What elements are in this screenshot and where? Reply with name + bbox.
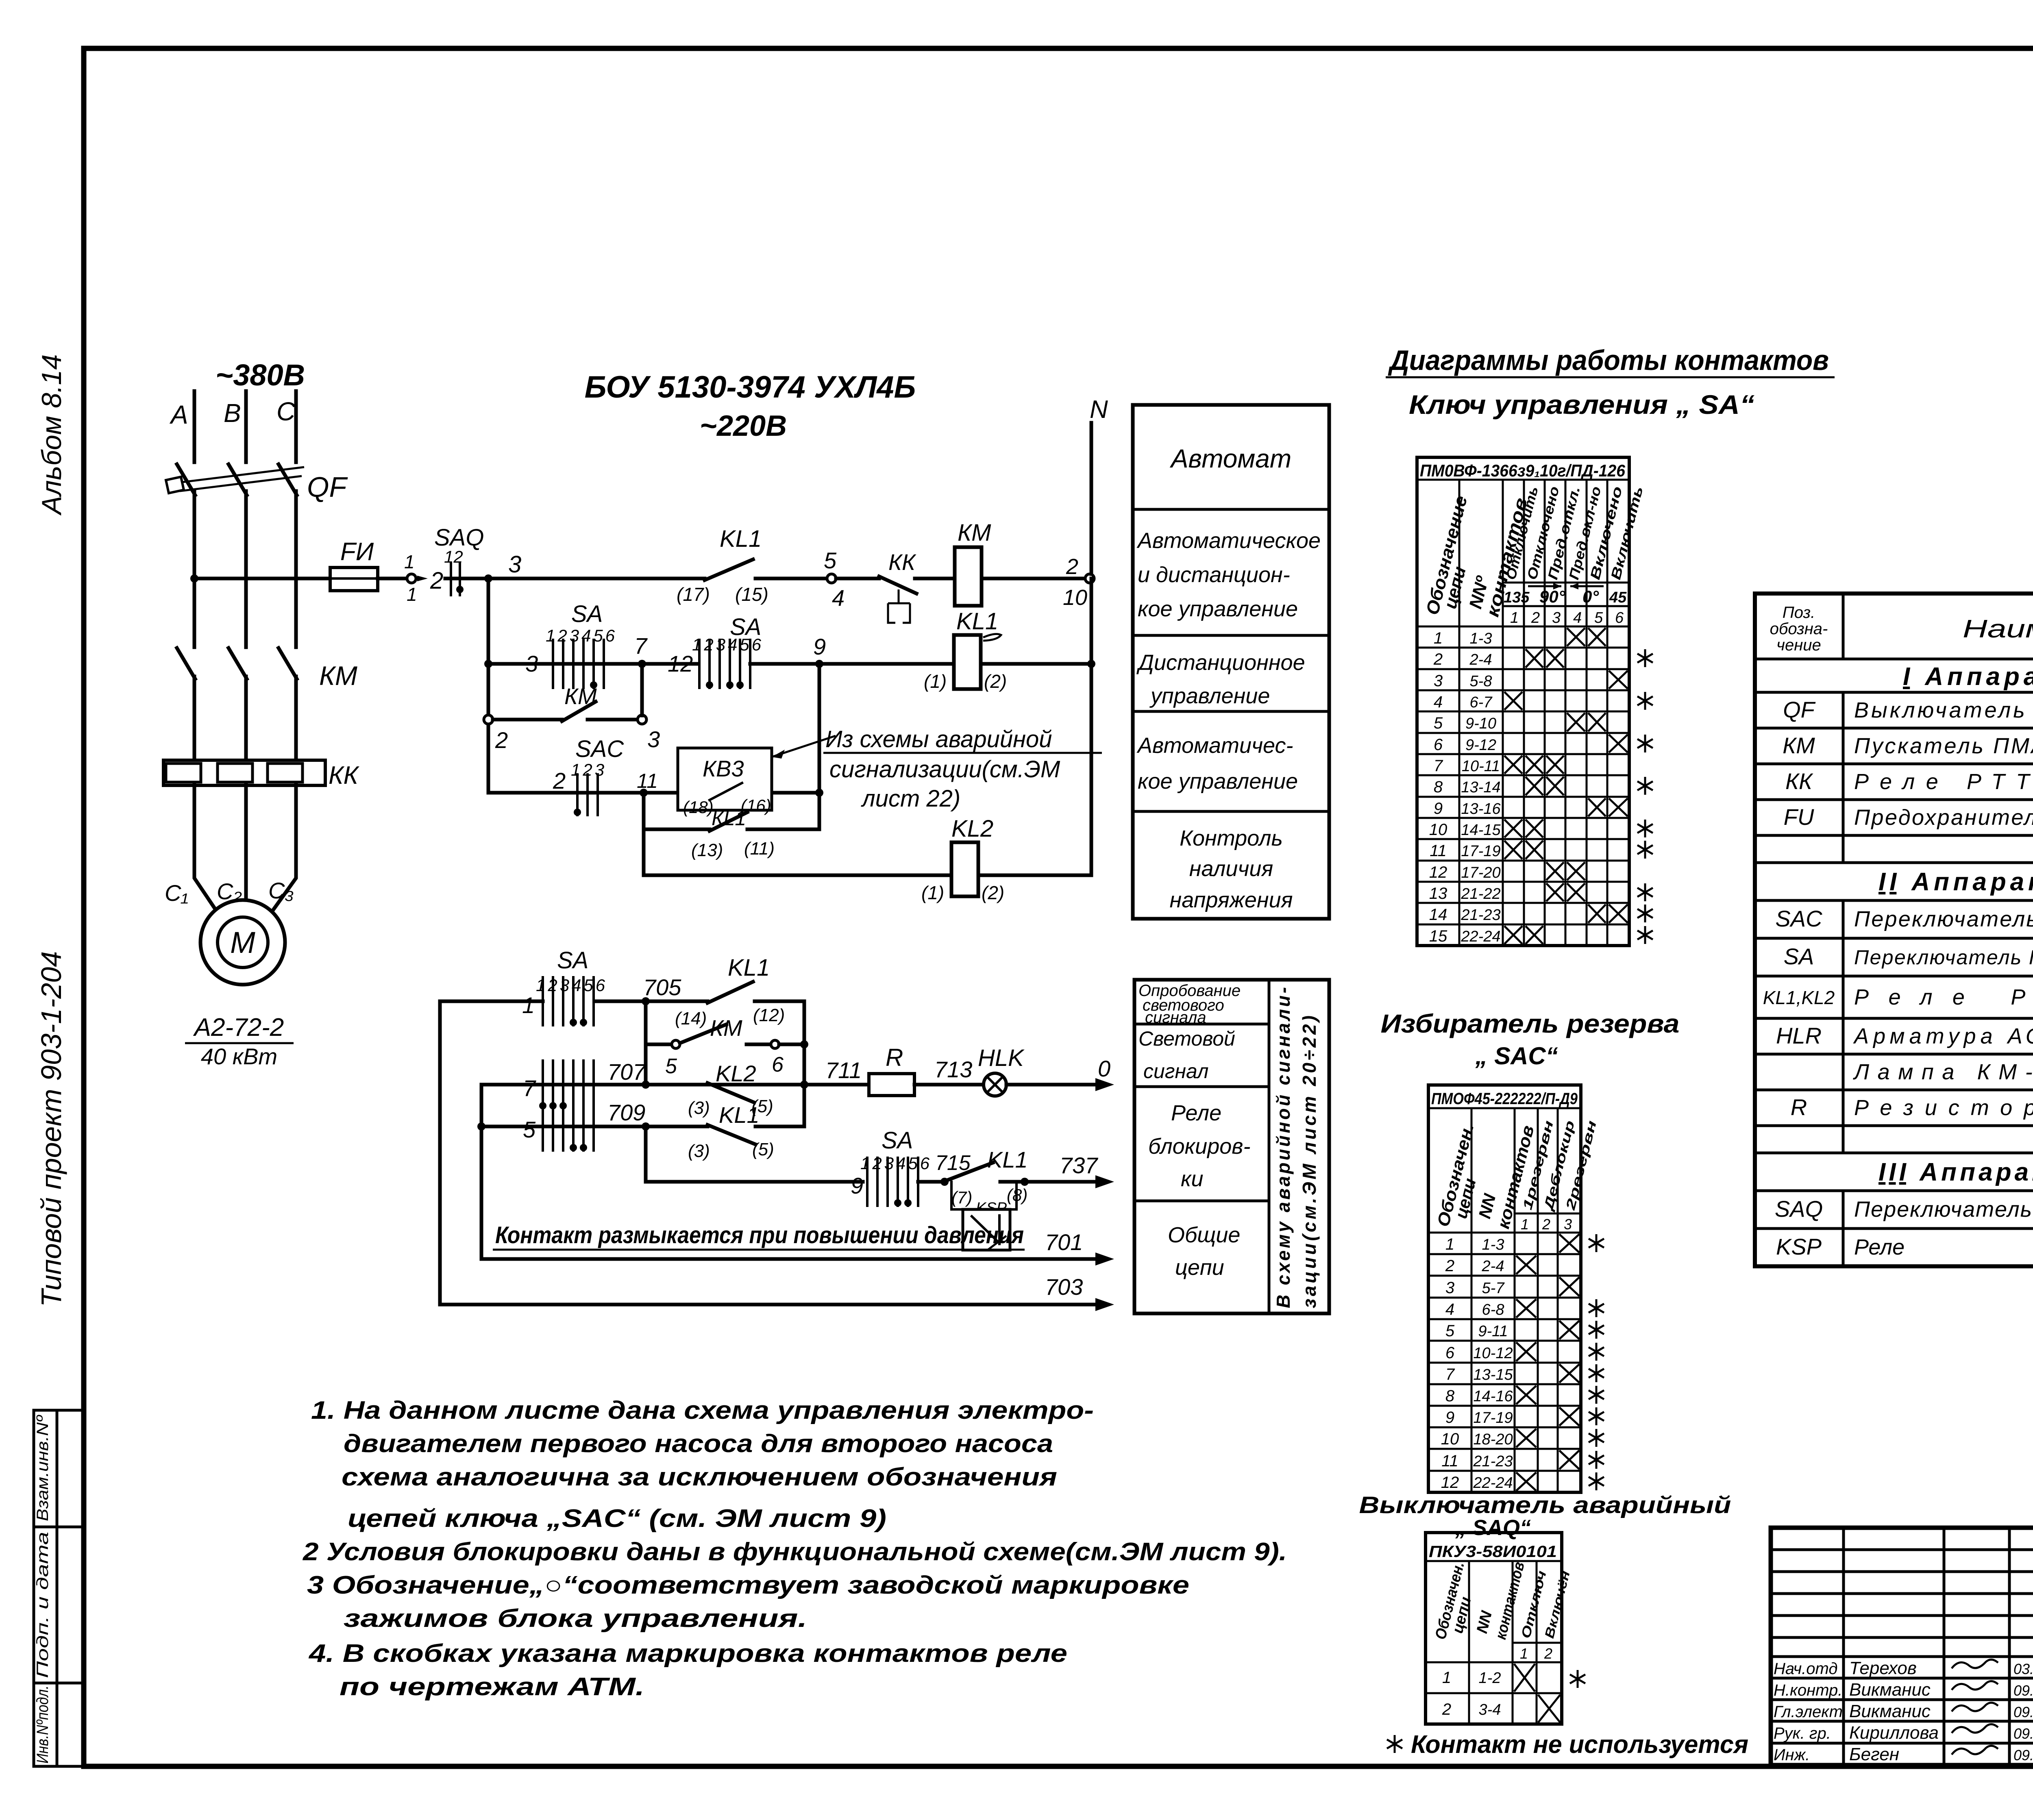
svg-text:18-20: 18-20 xyxy=(1473,1431,1513,1448)
junction row4 right xyxy=(815,789,823,797)
svg-text:9-10: 9-10 xyxy=(1465,715,1496,732)
svg-text:2: 2 xyxy=(1544,1645,1552,1662)
svg-text:SAC: SAC xyxy=(575,736,624,762)
svg-text:1: 1 xyxy=(1434,629,1443,647)
svg-text:Взам.инв.Nº: Взам.инв.Nº xyxy=(34,1414,52,1521)
svg-text:5-8: 5-8 xyxy=(1470,673,1492,690)
row 715 wire xyxy=(646,1180,863,1184)
svg-text:13-14: 13-14 xyxy=(1461,779,1500,796)
vertical x1583 down xyxy=(642,793,646,875)
svg-text:КВ3: КВ3 xyxy=(703,756,744,781)
thermal relay KK heaters xyxy=(163,760,325,785)
switch SA contact (row2 left) xyxy=(549,662,610,666)
junction node 3 xyxy=(484,574,492,583)
wire row4 xyxy=(488,791,819,795)
terminal node 1 xyxy=(407,574,416,583)
wire to 0 arrow xyxy=(1006,1083,1098,1087)
function boxes column 1 xyxy=(1133,405,1329,919)
svg-text:Нач.отд: Нач.отд xyxy=(1774,1660,1838,1678)
svg-text:9-12: 9-12 xyxy=(1465,737,1496,754)
svg-text:QF: QF xyxy=(307,471,348,503)
svg-text:Общие: Общие xyxy=(1168,1223,1240,1247)
vertical 9 down xyxy=(818,664,821,829)
svg-text:Беген: Беген xyxy=(1849,1744,1899,1764)
vertical x1184 xyxy=(480,1085,483,1259)
svg-text:10: 10 xyxy=(1429,821,1447,839)
svg-text:5-7: 5-7 xyxy=(1482,1280,1505,1297)
vertical 7-3 xyxy=(640,664,644,715)
svg-text:17-20: 17-20 xyxy=(1461,864,1500,881)
svg-text:(14): (14) xyxy=(675,1009,707,1029)
svg-text:ПМ0ВФ-1366з9₁10г/ПД-126: ПМ0ВФ-1366з9₁10г/ПД-126 xyxy=(1420,461,1626,480)
svg-text:SAQ: SAQ xyxy=(1775,1196,1823,1222)
circuit breaker QF xyxy=(166,464,304,495)
svg-text:(1): (1) xyxy=(921,882,944,903)
svg-text:Реле: Реле xyxy=(1854,1235,1905,1259)
svg-text:22-24: 22-24 xyxy=(1461,928,1500,945)
svg-text:11: 11 xyxy=(637,770,658,792)
phase B wire lower xyxy=(244,676,248,761)
svg-text:ПКУ3-58И0101: ПКУ3-58И0101 xyxy=(1429,1543,1557,1561)
svg-text:(13): (13) xyxy=(691,840,723,860)
svg-text:KL2: KL2 xyxy=(951,815,993,842)
svg-text:1. На данном листе дана схема: 1. На данном листе дана схема управления… xyxy=(311,1396,1094,1424)
svg-text:обозна-: обозна- xyxy=(1770,620,1828,638)
contactor KM main contacts xyxy=(177,648,297,679)
riser segment xyxy=(1090,578,1093,875)
svg-text:ки: ки xyxy=(1181,1167,1204,1191)
terminal node 3 (KM aux right) xyxy=(638,715,646,724)
svg-text:713: 713 xyxy=(934,1057,972,1082)
svg-text:(1): (1) xyxy=(924,671,947,692)
svg-text:FU: FU xyxy=(1784,804,1814,830)
aux contact KM (5-6) xyxy=(646,1043,671,1046)
svg-text:Выключатель АЕ2056-10У3 Iр 10: Выключатель АЕ2056-10У3 Iр 100А xyxy=(1854,698,2033,722)
svg-text:12: 12 xyxy=(1441,1474,1459,1492)
svg-text:12: 12 xyxy=(1429,863,1447,881)
svg-text:~220В: ~220В xyxy=(700,410,787,442)
svg-text:4: 4 xyxy=(1445,1300,1454,1318)
wire KM coil to node 2/10 xyxy=(982,577,1085,581)
svg-text:Переключатель ПМ0ВФ-1366з9₁10г: Переключатель ПМ0ВФ-1366з9₁10г/П-Д126 xyxy=(1854,946,2033,969)
svg-text:15: 15 xyxy=(1429,927,1447,945)
svg-text:123456: 123456 xyxy=(536,976,607,995)
contact KL1 (13)(11) xyxy=(710,812,747,831)
svg-text:Переключатель ПМОФ45-222222/П-: Переключатель ПМОФ45-222222/П-Д9 xyxy=(1854,907,2033,931)
contact KL2 (3)(5) xyxy=(707,1083,754,1102)
svg-text:KL1: KL1 xyxy=(720,526,762,552)
switch SAC xyxy=(574,773,598,816)
wire to fuse xyxy=(194,577,330,581)
svg-text:9: 9 xyxy=(1434,800,1443,818)
svg-text:III Аппараты у электродвигат: III Аппараты у электродвигателя xyxy=(1878,1158,2033,1186)
svg-text:наличия: наличия xyxy=(1189,857,1273,881)
svg-text:КМ: КМ xyxy=(1783,733,1815,758)
svg-text:1: 1 xyxy=(1521,1216,1529,1233)
svg-text:R: R xyxy=(886,1044,903,1071)
svg-text:4: 4 xyxy=(1434,693,1443,711)
svg-text:701: 701 xyxy=(1045,1229,1083,1255)
svg-text:Викманис: Викманис xyxy=(1849,1701,1931,1721)
svg-text:0: 0 xyxy=(1098,1056,1110,1081)
svg-text:17-19: 17-19 xyxy=(1473,1409,1513,1426)
svg-text:5: 5 xyxy=(1434,714,1443,732)
svg-text:3: 3 xyxy=(525,651,538,676)
wire row6 xyxy=(644,874,951,877)
svg-text:(11): (11) xyxy=(744,839,775,859)
svg-text:Избиратель резерва: Избиратель резерва xyxy=(1381,1009,1680,1038)
switch SA contact (715) xyxy=(867,1157,918,1207)
svg-text:кое управление: кое управление xyxy=(1138,597,1298,621)
svg-text:FИ: FИ xyxy=(340,538,374,566)
svg-text:13: 13 xyxy=(1429,885,1447,902)
svg-text:Альбом 8.14: Альбом 8.14 xyxy=(36,354,67,516)
svg-text:21-22: 21-22 xyxy=(1461,885,1500,902)
svg-text:11: 11 xyxy=(1430,842,1447,860)
svg-text:Поз.: Поз. xyxy=(1783,604,1815,622)
svg-text:сигнал: сигнал xyxy=(1143,1060,1208,1083)
svg-text:2: 2 xyxy=(1445,1257,1454,1275)
svg-text:~380В: ~380В xyxy=(215,358,305,392)
svg-text:1: 1 xyxy=(404,551,415,572)
wire to node 5 xyxy=(755,577,827,581)
svg-text:SA: SA xyxy=(557,947,588,974)
svg-text:14-15: 14-15 xyxy=(1461,822,1501,839)
svg-text:709: 709 xyxy=(607,1100,645,1125)
svg-text:напряжения: напряжения xyxy=(1170,888,1293,912)
svg-text:КК: КК xyxy=(329,761,360,789)
svg-text:4. В скобках указана маркировк: 4. В скобках указана маркировка контакто… xyxy=(308,1640,1067,1668)
svg-text:7: 7 xyxy=(523,1075,536,1101)
coil KM xyxy=(955,547,982,606)
svg-text:(7): (7) xyxy=(951,1188,972,1207)
svg-text:по чертежам АТМ.: по чертежам АТМ. xyxy=(340,1673,644,1701)
leader to KV3 xyxy=(772,736,836,757)
svg-text:QF: QF xyxy=(1783,697,1816,722)
svg-text:КК: КК xyxy=(1785,768,1813,794)
svg-text:6-7: 6-7 xyxy=(1470,694,1493,711)
svg-text:3: 3 xyxy=(1434,672,1443,690)
svg-text:Предохранитель ППТ-10У3 Iпл.вс: Предохранитель ППТ-10У3 Iпл.вст. 6А xyxy=(1854,805,2033,830)
svg-text:21-23: 21-23 xyxy=(1473,1453,1513,1470)
svg-text:14: 14 xyxy=(1429,906,1447,924)
svg-text:1-2: 1-2 xyxy=(1479,1670,1501,1687)
phase C wire lower xyxy=(294,676,298,761)
svg-text:4: 4 xyxy=(832,585,845,611)
svg-text:2: 2 xyxy=(553,768,566,794)
svg-text:6: 6 xyxy=(1615,609,1624,626)
svg-text:М: М xyxy=(230,926,255,959)
svg-text:SAC: SAC xyxy=(1775,906,1822,931)
svg-text:123456: 123456 xyxy=(860,1154,932,1173)
wire KL1 coil to riser xyxy=(981,662,1091,666)
svg-text:КМ: КМ xyxy=(710,1015,742,1041)
svg-text:SA: SA xyxy=(571,601,603,627)
svg-text:705: 705 xyxy=(643,974,681,1000)
relay contact KL1 (17)(15) xyxy=(705,559,753,580)
svg-text:123456: 123456 xyxy=(546,626,617,645)
svg-text:3 Обозначение„○“соответствует: 3 Обозначение„○“соответствует заводской … xyxy=(307,1571,1189,1599)
vertical bypass right xyxy=(803,1001,806,1085)
svg-text:Инж.: Инж. xyxy=(1774,1746,1810,1764)
svg-text:Автомат: Автомат xyxy=(1169,444,1291,473)
svg-text:Викманис: Викманис xyxy=(1849,1680,1931,1700)
svg-text:БОУ 5130-3974 УХЛ4Б: БОУ 5130-3974 УХЛ4Б xyxy=(585,370,916,404)
phase B wire top xyxy=(244,391,248,462)
svg-text:Переключатель ПКУ3-58И0101: Переключатель ПКУ3-58И0101 xyxy=(1854,1197,2033,1222)
svg-text:А2-72-2: А2-72-2 xyxy=(193,1013,284,1042)
svg-text:5: 5 xyxy=(523,1117,536,1142)
terminal node 2 (KM aux) xyxy=(484,715,493,724)
lamp HLK xyxy=(984,1073,1006,1096)
wire row2 left xyxy=(488,662,552,666)
svg-text:11: 11 xyxy=(1441,1452,1458,1470)
note Контакт не используется xyxy=(1387,1735,1402,1753)
svg-text:2-4: 2-4 xyxy=(1482,1258,1504,1275)
svg-text:А: А xyxy=(169,400,188,429)
svg-text:КК: КК xyxy=(888,549,916,575)
coil KL1 xyxy=(954,635,981,689)
svg-text:Диаграммы работы контактов: Диаграммы работы контактов xyxy=(1388,344,1829,376)
svg-text:двигателем первого насоса для: двигателем первого насоса для второго на… xyxy=(344,1430,1053,1458)
svg-text:KL1: KL1 xyxy=(987,1147,1028,1172)
svg-text:„ SAC“: „ SAC“ xyxy=(1475,1042,1558,1070)
SAQ table xyxy=(1426,1533,1562,1724)
thermal contact KK xyxy=(836,577,879,581)
wire KK to KM coil xyxy=(915,577,955,581)
svg-text:KL1: KL1 xyxy=(956,608,998,635)
svg-text:9: 9 xyxy=(813,634,826,659)
title block xyxy=(1771,1528,2033,1765)
terminal node 5/4 xyxy=(827,574,836,583)
svg-text:135: 135 xyxy=(1504,589,1530,606)
svg-text:КL1: КL1 xyxy=(712,807,746,830)
svg-text:1: 1 xyxy=(407,584,417,605)
svg-text:6: 6 xyxy=(772,1053,784,1076)
junction row4/vert xyxy=(640,789,648,797)
svg-text:2-4: 2-4 xyxy=(1469,651,1492,668)
svg-text:6-8: 6-8 xyxy=(1482,1301,1504,1318)
svg-text:С₃: С₃ xyxy=(268,878,294,903)
svg-text:0°: 0° xyxy=(1582,587,1599,606)
svg-text:7: 7 xyxy=(1445,1366,1455,1383)
SAC table data rows xyxy=(1441,1234,1604,1492)
function boxes column 2 xyxy=(1134,980,1329,1313)
switch SA contact (709) xyxy=(543,1101,594,1152)
svg-text:(3): (3) xyxy=(688,1098,710,1118)
phase C wire top xyxy=(294,391,298,462)
svg-text:Подп. и дата: Подп. и дата xyxy=(34,1532,52,1678)
svg-text:Лампа КМ-24-90: Лампа КМ-24-90 xyxy=(1853,1060,2033,1084)
svg-text:ПМОФ45-222222/П-Д9: ПМОФ45-222222/П-Д9 xyxy=(1431,1090,1578,1108)
svg-text:Дистанционное: Дистанционное xyxy=(1136,650,1305,675)
svg-text:II Аппараты на щите КИП: II Аппараты на щите КИП xyxy=(1878,868,2033,896)
row 709 wire xyxy=(481,1125,707,1129)
wire fuse to terminal 1 xyxy=(378,577,407,581)
svg-text:5: 5 xyxy=(1445,1322,1455,1340)
svg-text:сигнализации(см.ЭМ: сигнализации(см.ЭМ xyxy=(829,756,1060,783)
contact KL1 (7)(8) with KSP xyxy=(940,1178,949,1186)
left margin stamp boxes xyxy=(34,1410,83,1766)
svg-text:13-16: 13-16 xyxy=(1461,800,1501,818)
svg-text:711: 711 xyxy=(825,1057,862,1083)
SA contact diagram table xyxy=(1417,457,1629,946)
svg-text:(15): (15) xyxy=(735,584,768,605)
switch SAQ xyxy=(451,563,464,595)
svg-text:схема аналогична за исключение: схема аналогична за исключением обозначе… xyxy=(342,1463,1057,1491)
svg-text:цепей ключа „SAC“ (см. ЭМ лист: цепей ключа „SAC“ (см. ЭМ лист 9) xyxy=(348,1505,886,1533)
svg-text:2: 2 xyxy=(1542,1216,1550,1233)
svg-text:Ключ управления „ SA“: Ключ управления „ SA“ xyxy=(1409,389,1754,420)
svg-text:цепи: цепи xyxy=(1175,1255,1224,1280)
svg-text:Наименование: Наименование xyxy=(1963,615,2033,643)
svg-text:KSP: KSP xyxy=(1776,1234,1822,1259)
arrow and label 2 xyxy=(417,576,428,581)
svg-text:09.83: 09.83 xyxy=(2013,1704,2033,1720)
svg-text:кое управление: кое управление xyxy=(1138,769,1298,794)
svg-text:1: 1 xyxy=(1442,1669,1451,1687)
vertical x1588 down to 715 xyxy=(644,1126,648,1182)
switch SA contact (707) xyxy=(539,1059,594,1110)
row 707: wire xyxy=(481,1083,869,1087)
svg-text:КМ: КМ xyxy=(319,661,357,691)
motor M xyxy=(200,900,285,985)
svg-text:1: 1 xyxy=(1510,609,1519,626)
fuse FU xyxy=(330,568,378,591)
svg-text:10-12: 10-12 xyxy=(1473,1345,1513,1362)
vertical 711 drop xyxy=(803,1085,806,1126)
svg-text:09.8: 09.8 xyxy=(2013,1747,2033,1763)
svg-text:707: 707 xyxy=(607,1059,646,1085)
svg-text:2: 2 xyxy=(430,568,443,594)
wire row1 xyxy=(445,577,705,581)
svg-text:737: 737 xyxy=(1060,1152,1098,1178)
svg-text:09.83: 09.83 xyxy=(2013,1682,2033,1699)
svg-text:6: 6 xyxy=(1445,1344,1455,1362)
svg-text:Инв.Nºподл.: Инв.Nºподл. xyxy=(34,1685,52,1763)
phase B wire mid xyxy=(244,491,248,647)
svg-text:KL1: KL1 xyxy=(719,1102,760,1128)
relay box KV3 xyxy=(678,748,772,817)
svg-text:10: 10 xyxy=(1441,1430,1459,1448)
svg-text:1: 1 xyxy=(1520,1645,1528,1662)
svg-text:Терехов: Терехов xyxy=(1849,1658,1917,1678)
svg-text:сигнала: сигнала xyxy=(1145,1009,1206,1026)
switch SA contact (row2 right) xyxy=(699,639,750,689)
SAC table xyxy=(1428,1085,1581,1492)
svg-text:Реле: Реле xyxy=(1171,1101,1221,1125)
svg-text:чение: чение xyxy=(1776,636,1821,654)
svg-text:10-11: 10-11 xyxy=(1462,758,1500,775)
junction node 7 xyxy=(638,660,646,668)
svg-text:Автоматическое: Автоматическое xyxy=(1136,528,1321,553)
svg-text:3: 3 xyxy=(1445,1279,1454,1297)
row 701 wire xyxy=(481,1257,1098,1261)
svg-text:09.83: 09.83 xyxy=(2013,1725,2033,1742)
svg-text:KL2: KL2 xyxy=(716,1061,756,1086)
svg-text:3: 3 xyxy=(508,551,521,578)
svg-text:5: 5 xyxy=(824,548,837,573)
junction node 9 xyxy=(815,660,823,668)
svg-text:(5): (5) xyxy=(752,1139,774,1159)
coil KL2 xyxy=(951,842,978,896)
svg-text:С₁: С₁ xyxy=(165,880,188,906)
svg-text:(18): (18) xyxy=(683,798,714,817)
svg-text:2 Условия блокировки даны в фу: 2 Условия блокировки даны в функциональн… xyxy=(303,1538,1287,1566)
svg-text:(2): (2) xyxy=(984,671,1007,692)
svg-text:HLR: HLR xyxy=(1776,1023,1822,1048)
svg-text:Контроль: Контроль xyxy=(1180,826,1283,850)
svg-text:(12): (12) xyxy=(753,1005,785,1025)
vertical bypass left xyxy=(644,1001,648,1085)
svg-text:7: 7 xyxy=(634,633,648,659)
svg-text:и дистанцион-: и дистанцион- xyxy=(1138,563,1290,587)
svg-text:КМ: КМ xyxy=(564,683,597,709)
phase C wire mid xyxy=(294,491,298,647)
wire KL2 to riser xyxy=(978,874,1091,877)
svg-text:Контакт размыкается при повыше: Контакт размыкается при повышении давлен… xyxy=(495,1222,1024,1248)
svg-text:17-19: 17-19 xyxy=(1461,843,1500,860)
svg-text:123: 123 xyxy=(571,760,607,779)
resistor R xyxy=(869,1074,914,1096)
svg-text:2: 2 xyxy=(1066,554,1078,579)
svg-text:21-23: 21-23 xyxy=(1461,907,1500,924)
svg-text:2: 2 xyxy=(1442,1700,1451,1718)
junction on riser xyxy=(1087,660,1095,668)
svg-text:5: 5 xyxy=(1594,609,1603,626)
svg-text:10: 10 xyxy=(1063,585,1087,610)
wire row2 to KL1 coil xyxy=(750,662,954,666)
svg-text:12: 12 xyxy=(668,651,693,676)
svg-text:9-11: 9-11 xyxy=(1478,1323,1508,1340)
svg-text:лист 22): лист 22) xyxy=(861,785,960,812)
SAQ data rows xyxy=(1442,1664,1585,1722)
node on phase A xyxy=(190,574,198,583)
svg-text:В: В xyxy=(224,398,241,428)
svg-text:123456: 123456 xyxy=(692,635,764,654)
svg-text:Н.контр.: Н.контр. xyxy=(1774,1681,1842,1699)
aux contact KM xyxy=(493,718,562,722)
svg-text:Рук. гр.: Рук. гр. xyxy=(1774,1724,1831,1742)
svg-text:3: 3 xyxy=(1564,1216,1572,1233)
svg-text:Типовой проект 903-1-204: Типовой проект 903-1-204 xyxy=(35,951,67,1307)
vertical branch x1201 xyxy=(487,578,490,793)
contact KL1 (14)(12) xyxy=(707,982,753,1003)
svg-text:40 кВт: 40 кВт xyxy=(201,1044,277,1069)
svg-text:С: С xyxy=(276,397,296,426)
svg-text:Гл.элект.: Гл.элект. xyxy=(1774,1703,1847,1721)
svg-text:Выключатель аварийный: Выключатель аварийный xyxy=(1359,1492,1731,1518)
svg-text:Кириллова: Кириллова xyxy=(1849,1723,1939,1743)
parts list table xyxy=(1755,594,2033,1266)
phase A wire to motor xyxy=(194,785,220,915)
svg-text:13-15: 13-15 xyxy=(1473,1366,1513,1383)
svg-text:2: 2 xyxy=(1531,609,1540,626)
contact KL1 (3)(5) row709 xyxy=(707,1125,755,1144)
svg-text:Световой: Световой xyxy=(1138,1027,1235,1050)
svg-text:9: 9 xyxy=(1445,1409,1454,1426)
svg-text:(3): (3) xyxy=(688,1141,710,1161)
phase A wire top xyxy=(193,391,196,462)
svg-text:3: 3 xyxy=(647,726,660,752)
svg-text:R: R xyxy=(1791,1094,1807,1120)
svg-text:KL1: KL1 xyxy=(728,955,770,981)
phase B wire to motor xyxy=(244,785,248,900)
svg-text:5: 5 xyxy=(665,1055,677,1078)
svg-text:управление: управление xyxy=(1149,684,1270,708)
terminal node 2/10 xyxy=(1085,574,1094,583)
svg-text:N: N xyxy=(1090,396,1108,424)
